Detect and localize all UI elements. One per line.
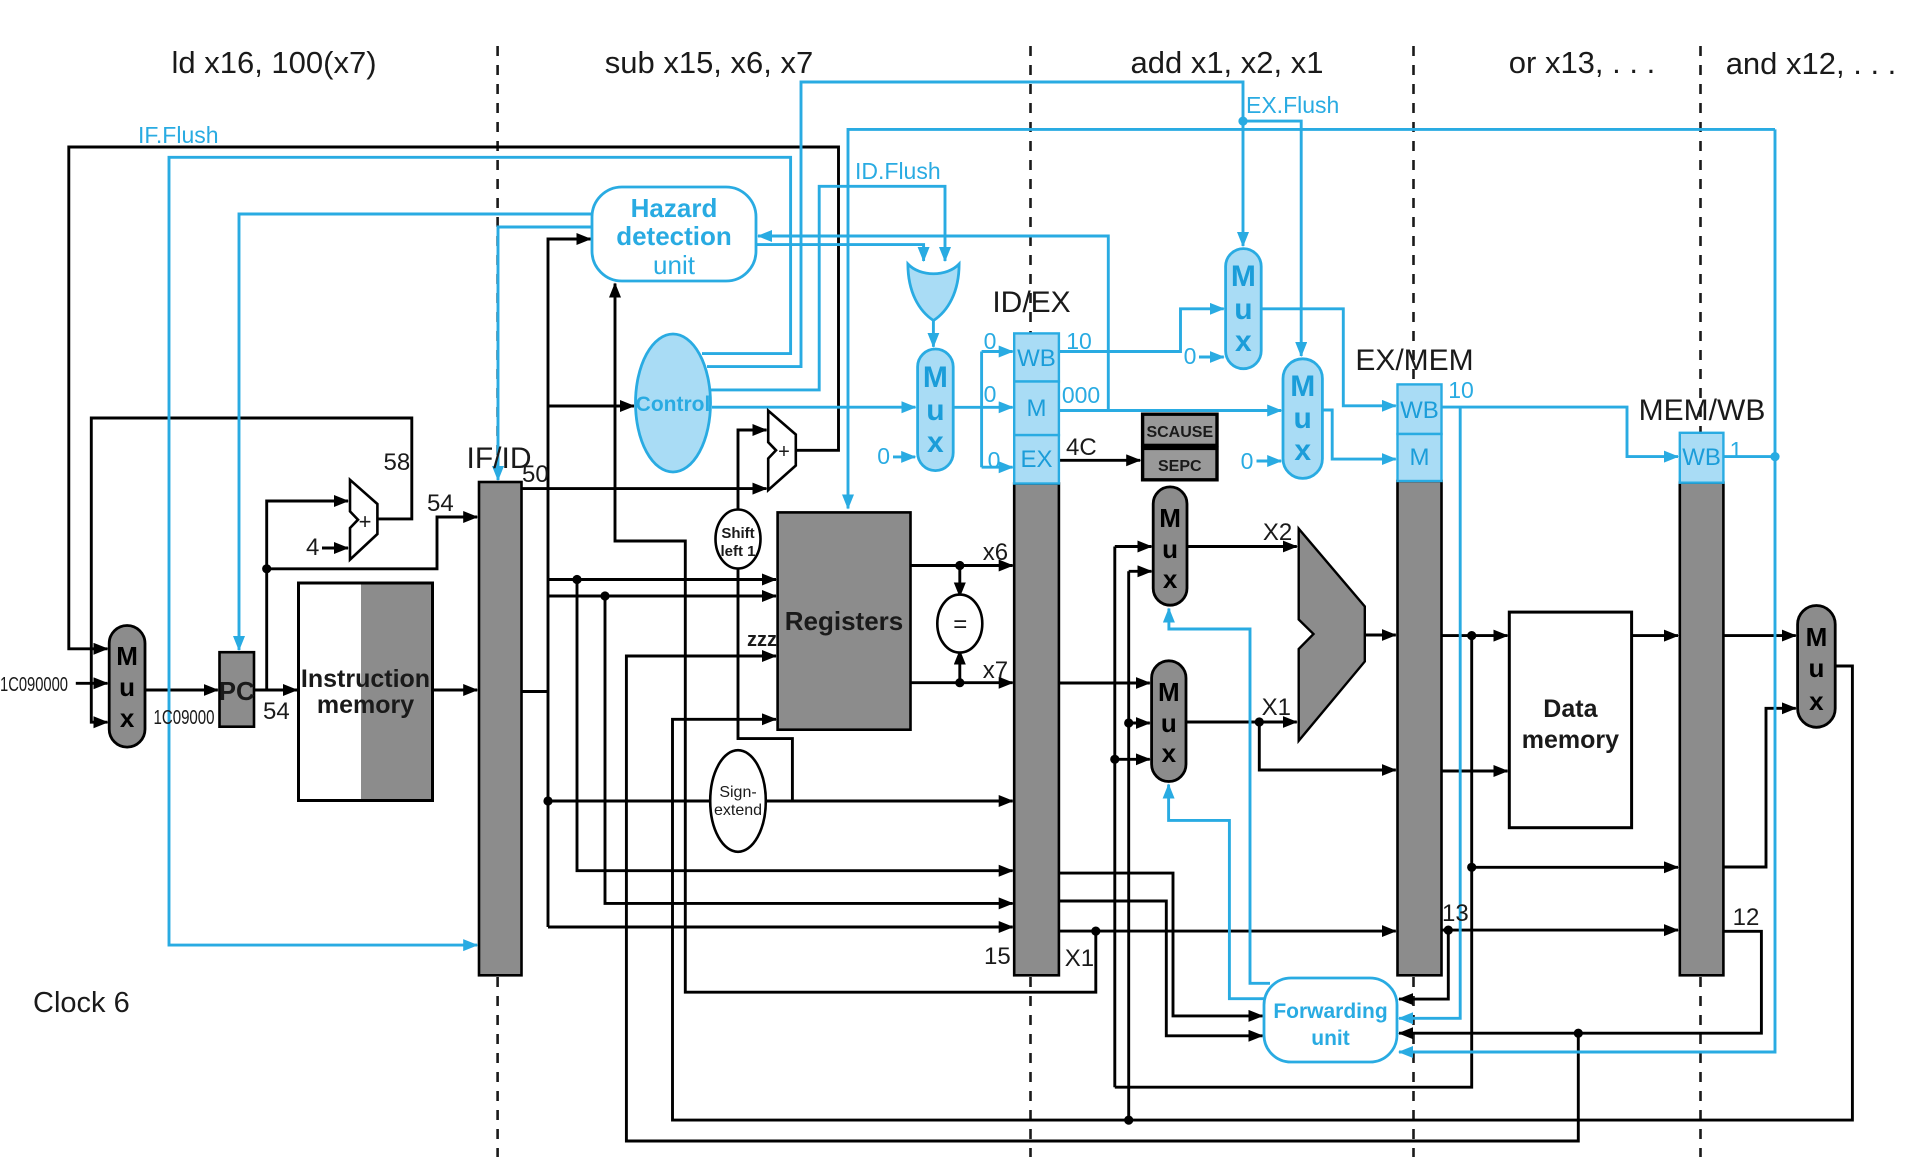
svg-text:x: x bbox=[1162, 738, 1177, 768]
svg-text:x: x bbox=[927, 426, 944, 459]
svg-text:SCAUSE: SCAUSE bbox=[1146, 424, 1213, 441]
svg-text:54: 54 bbox=[263, 698, 290, 725]
svg-text:u: u bbox=[1161, 708, 1177, 738]
svg-text:u: u bbox=[119, 672, 135, 702]
svg-text:13: 13 bbox=[1442, 900, 1469, 927]
svg-text:x7: x7 bbox=[983, 657, 1008, 684]
svg-text:WB: WB bbox=[1400, 397, 1439, 424]
svg-text:Sign-: Sign- bbox=[719, 784, 756, 801]
svg-text:0: 0 bbox=[1184, 343, 1197, 369]
svg-text:4: 4 bbox=[306, 534, 319, 561]
svg-text:M: M bbox=[116, 641, 138, 671]
svg-text:IF.Flush: IF.Flush bbox=[138, 122, 219, 148]
svg-text:10: 10 bbox=[1066, 328, 1092, 354]
svg-text:4C: 4C bbox=[1066, 434, 1097, 461]
svg-text:u: u bbox=[1808, 653, 1824, 683]
svg-text:and x12, . . .: and x12, . . . bbox=[1726, 46, 1897, 81]
svg-text:detection: detection bbox=[616, 221, 732, 251]
svg-text:memory: memory bbox=[1522, 726, 1619, 754]
svg-text:ID.Flush: ID.Flush bbox=[855, 158, 941, 184]
svg-text:1C09000: 1C09000 bbox=[154, 707, 215, 729]
svg-text:0: 0 bbox=[984, 328, 997, 354]
svg-text:EX/MEM: EX/MEM bbox=[1355, 344, 1473, 377]
svg-text:M: M bbox=[1158, 677, 1180, 707]
svg-text:x: x bbox=[1294, 434, 1311, 467]
svg-text:WB: WB bbox=[1017, 345, 1056, 372]
svg-text:u: u bbox=[926, 394, 944, 427]
svg-text:Clock 6: Clock 6 bbox=[33, 987, 130, 1019]
svg-text:SEPC: SEPC bbox=[1158, 458, 1202, 475]
svg-text:+: + bbox=[359, 509, 372, 534]
svg-text:PC: PC bbox=[219, 676, 255, 706]
svg-text:sub x15, x6, x7: sub x15, x6, x7 bbox=[605, 45, 814, 80]
svg-text:58: 58 bbox=[384, 449, 411, 476]
svg-text:M: M bbox=[1410, 444, 1430, 471]
svg-text:Registers: Registers bbox=[785, 606, 904, 636]
svg-text:0: 0 bbox=[984, 381, 997, 407]
svg-text:X2: X2 bbox=[1263, 519, 1292, 546]
svg-text:+: + bbox=[778, 441, 790, 463]
svg-text:u: u bbox=[1162, 534, 1178, 564]
svg-text:Hazard: Hazard bbox=[631, 193, 718, 223]
svg-text:unit: unit bbox=[1311, 1027, 1349, 1050]
svg-text:x: x bbox=[1235, 325, 1252, 358]
svg-text:memory: memory bbox=[317, 691, 414, 719]
svg-text:zzz: zzz bbox=[747, 629, 777, 651]
svg-text:add x1, x2, x1: add x1, x2, x1 bbox=[1130, 45, 1323, 80]
svg-text:u: u bbox=[1234, 293, 1252, 326]
svg-text:extend: extend bbox=[714, 802, 762, 819]
svg-text:u: u bbox=[1294, 402, 1312, 435]
svg-text:54: 54 bbox=[427, 490, 454, 517]
svg-text:WB: WB bbox=[1682, 444, 1721, 471]
svg-text:Control: Control bbox=[636, 393, 711, 416]
svg-text:10: 10 bbox=[1448, 377, 1474, 403]
svg-text:EX.Flush: EX.Flush bbox=[1246, 92, 1339, 118]
svg-text:1: 1 bbox=[1730, 437, 1743, 463]
svg-text:x6: x6 bbox=[983, 539, 1008, 566]
svg-text:M: M bbox=[1290, 370, 1315, 403]
svg-text:left 1: left 1 bbox=[720, 543, 755, 560]
svg-text:unit: unit bbox=[653, 250, 696, 280]
svg-text:0: 0 bbox=[877, 443, 890, 469]
svg-text:Data: Data bbox=[1543, 695, 1598, 723]
svg-text:ld x16, 100(x7): ld x16, 100(x7) bbox=[171, 45, 376, 80]
svg-text:12: 12 bbox=[1733, 904, 1760, 931]
svg-text:M: M bbox=[1231, 260, 1256, 293]
svg-text:X1: X1 bbox=[1065, 945, 1094, 972]
svg-text:M: M bbox=[1027, 395, 1047, 422]
svg-text:x: x bbox=[1163, 564, 1178, 594]
svg-text:0: 0 bbox=[988, 447, 1001, 473]
svg-text:15: 15 bbox=[984, 943, 1011, 970]
svg-text:M: M bbox=[923, 361, 948, 394]
svg-text:Shift: Shift bbox=[721, 525, 754, 542]
svg-text:EX: EX bbox=[1020, 446, 1052, 473]
svg-text:000: 000 bbox=[1062, 382, 1100, 408]
svg-text:=: = bbox=[953, 611, 967, 638]
svg-text:M: M bbox=[1159, 503, 1181, 533]
svg-text:X1: X1 bbox=[1262, 694, 1291, 721]
svg-text:Instruction: Instruction bbox=[301, 665, 430, 693]
svg-text:50: 50 bbox=[522, 461, 549, 488]
svg-text:x: x bbox=[120, 703, 135, 733]
svg-text:1C090000: 1C090000 bbox=[0, 674, 68, 696]
svg-text:M: M bbox=[1806, 622, 1828, 652]
svg-text:or x13, . . .: or x13, . . . bbox=[1509, 45, 1655, 80]
svg-text:0: 0 bbox=[1241, 448, 1254, 474]
svg-text:ID/EX: ID/EX bbox=[992, 286, 1070, 319]
svg-text:MEM/WB: MEM/WB bbox=[1639, 394, 1766, 427]
svg-text:x: x bbox=[1809, 686, 1824, 716]
svg-text:Forwarding: Forwarding bbox=[1273, 1000, 1387, 1023]
